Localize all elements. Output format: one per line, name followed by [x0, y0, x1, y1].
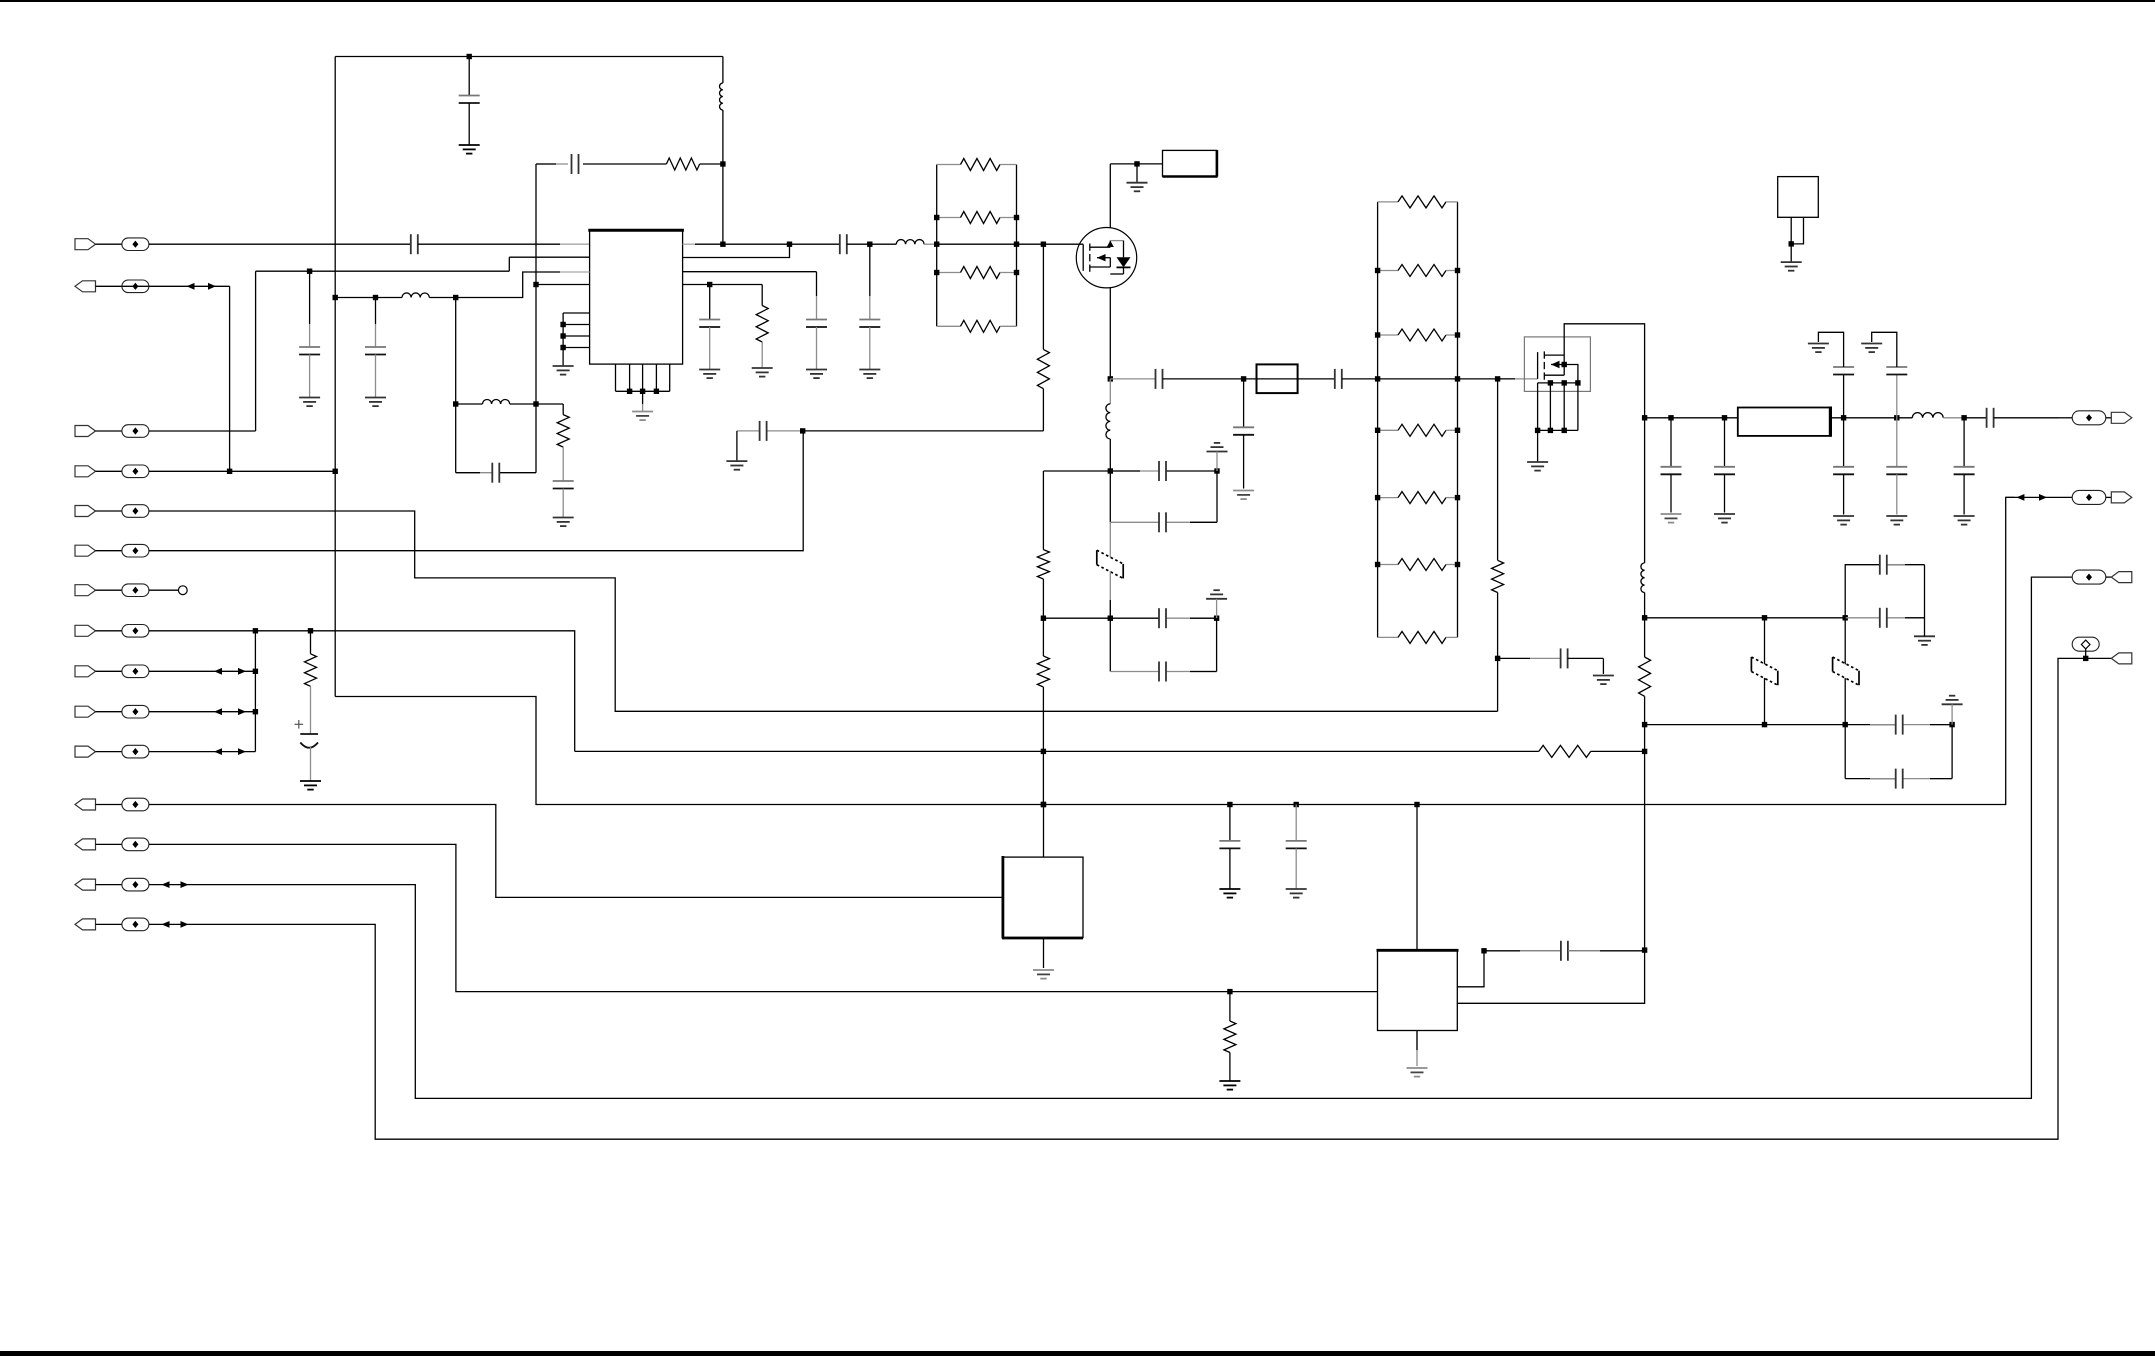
capacitor C6 [365, 298, 386, 398]
junction b2 R [1455, 332, 1460, 337]
ground cp2 up [1206, 590, 1227, 618]
wire pin2B loop [683, 244, 790, 257]
inductor L6 [1641, 418, 1645, 618]
resistor R20 [1378, 559, 1458, 571]
wire net VCC left vertical [334, 57, 336, 697]
wire bank1 row [937, 243, 1017, 245]
resistor R6 [937, 212, 1017, 224]
connector J8 [75, 625, 96, 636]
capacitor C33 [1818, 332, 1854, 418]
connector J9 [75, 666, 96, 677]
wire out4 [2079, 657, 2111, 659]
arrows J11 [214, 748, 246, 755]
junction drain gnd [1134, 161, 1139, 166]
capacitor C16 [1335, 369, 1342, 389]
connector J4 [75, 466, 96, 477]
transistor Q2 [1524, 337, 1590, 392]
junction U3b [1642, 947, 1647, 952]
connector P1 [2111, 412, 2132, 423]
wire J8 [96, 630, 122, 632]
junction pin2B [787, 242, 792, 247]
junction out L1col [720, 242, 725, 247]
junction tank TR [533, 401, 538, 406]
ground U2 [1033, 970, 1054, 979]
connector J13 [75, 839, 96, 850]
capacitor C8 [553, 481, 574, 489]
capacitor C27 [1896, 715, 1903, 735]
oscillator X1 [1778, 177, 1819, 218]
transistor Q1 [1076, 228, 1136, 288]
arrows J9 [214, 668, 246, 675]
inductor L2 [376, 293, 430, 298]
wire bank1 left rail [936, 165, 938, 327]
junction pin3A tank [453, 295, 458, 300]
ground C33 [1808, 344, 1829, 353]
wire U3 right b [1457, 951, 1644, 1004]
wire U1 bottom pins [616, 364, 670, 391]
junction R11 rowC [1041, 802, 1046, 807]
resistor R8 [937, 320, 1017, 332]
wire J10 [96, 711, 122, 713]
junction bpin2 [627, 389, 632, 394]
wire U3 top pin [1416, 805, 1418, 951]
capacitor C10 [859, 244, 880, 369]
capacitor C35 [1954, 418, 1975, 515]
capacitor C36 [1987, 408, 1994, 428]
wire U3 right a [1457, 951, 1484, 987]
ground C12 [699, 370, 720, 379]
capacitor C32 [1886, 418, 1907, 515]
junction b2 R [1455, 376, 1460, 381]
wire src row b [1163, 378, 1244, 380]
resistor R18 [1378, 424, 1458, 436]
junction J10 [253, 709, 258, 714]
capacitor C20 [1159, 662, 1166, 682]
ground C32 [1886, 516, 1907, 525]
ic U2 [1002, 856, 1083, 938]
bottom border bar [0, 1351, 2155, 1356]
arrows P2 [2016, 494, 2047, 501]
wire drain row [1110, 163, 1162, 165]
wire c25 top loop [1845, 565, 1924, 618]
connector P2 [2111, 492, 2132, 503]
resistor R2 [305, 631, 317, 734]
wire J11 east [149, 751, 256, 753]
wire J5 east [149, 511, 1498, 711]
wire cp2 sides [1110, 618, 1216, 671]
wire J12 east [149, 805, 1003, 898]
capacitor C22 [1286, 805, 1307, 890]
ground C22 [1286, 889, 1307, 898]
resistor R14 [1224, 992, 1236, 1081]
wire tank right [535, 404, 537, 473]
attenuator pad A3 [1833, 618, 1859, 725]
arrows J10 [214, 708, 246, 715]
capacitor C21 [1219, 805, 1240, 890]
junction b1 R4 [1014, 270, 1019, 275]
net label N17 [2072, 490, 2106, 504]
ic U3 [1377, 950, 1459, 1030]
ground C34 [1861, 344, 1882, 353]
wire main row to U1 [418, 243, 590, 245]
resistor R12 [1539, 745, 1591, 757]
junction b2 L [1375, 332, 1380, 337]
connector J3 [75, 426, 96, 437]
junction q2s1 [1535, 428, 1540, 433]
wire U2 top pin [1043, 805, 1045, 858]
capacitor C28 [1896, 769, 1903, 789]
no-connect circle J7 [178, 586, 187, 595]
ground C1 [459, 145, 480, 154]
wire Q2 gnd [1537, 430, 1539, 462]
wire cp1 sides [1110, 471, 1217, 522]
ground C29 [1661, 514, 1682, 523]
wire J9 [96, 670, 122, 672]
junction C10 [867, 242, 872, 247]
junction rowC c22 [1294, 802, 1299, 807]
wire J8 east [149, 631, 575, 752]
capacitor C34 [1872, 332, 1908, 418]
net label N3 [122, 425, 149, 438]
wire R3 branch [536, 404, 563, 415]
wire c28 loop [1845, 725, 1952, 779]
junction R9 top [1041, 242, 1046, 247]
junction b2 R [1455, 495, 1460, 500]
resistor R7 [937, 267, 1017, 279]
junction rowC c21 [1227, 802, 1232, 807]
junction b2 L [1375, 428, 1380, 433]
wire R10 top [1043, 470, 1110, 472]
ground C6 [365, 398, 386, 407]
wire row 950 e [1568, 950, 1645, 952]
junction b1 L2 [934, 215, 939, 220]
net label N6 [122, 544, 149, 557]
wire pin3A jog [456, 272, 590, 298]
junction Q2 gate node [1495, 376, 1500, 381]
capacitor C4 [299, 271, 320, 397]
attenuator pad A2 [1751, 618, 1777, 725]
wire Q1 source [1109, 288, 1111, 379]
connector J7 [75, 585, 96, 596]
capacitor C19 [1159, 608, 1166, 628]
junction C24 [1495, 656, 1500, 661]
wire U1 gnd stubs [563, 313, 590, 366]
wire J13 east [149, 844, 1378, 991]
net label N8 [122, 625, 149, 638]
capacitor C30 [1714, 418, 1735, 513]
wire U1 out row [683, 243, 840, 245]
wire row C [335, 497, 2014, 804]
top border bar [0, 0, 2155, 2]
wire out row d [1964, 417, 1987, 419]
wire tank bottom [456, 472, 536, 474]
wire pin2A jog [509, 257, 589, 271]
ground cp1 up [1207, 443, 1228, 471]
wire J7 [96, 589, 122, 591]
inductor L7 [1912, 413, 1943, 418]
junction b2 L [1375, 495, 1380, 500]
net label N10 [122, 705, 149, 718]
wire row B [575, 750, 1539, 752]
junction X1 [1789, 241, 1794, 246]
wire pin3A step [335, 297, 456, 299]
junction top cap [467, 54, 472, 59]
wire gate chain bottom [1497, 658, 1499, 711]
net label N18 [2072, 570, 2106, 584]
capacitor C12 [699, 285, 720, 370]
capacitor C2 [572, 154, 579, 174]
inductor L5 [1106, 379, 1110, 471]
resistor R23 [1639, 618, 1651, 725]
junction q2s2 [1548, 428, 1553, 433]
ground R4 [752, 368, 773, 377]
wire Q2 drain [1564, 324, 1644, 418]
wire U3 gnd [1416, 1031, 1418, 1067]
wire U2 gnd [1043, 938, 1045, 969]
connector P3 [2111, 572, 2132, 583]
ground C24 [1593, 676, 1614, 685]
connector J1 [75, 239, 96, 250]
wire row pin2A [256, 270, 510, 272]
wire pin4B [683, 284, 763, 286]
ground C30 [1714, 514, 1735, 523]
wire out2 b [2106, 496, 2112, 498]
resistor R21 [1378, 631, 1458, 643]
connector J5 [75, 506, 96, 517]
wire row1 cap [1845, 617, 1924, 619]
resistor R19 [1378, 492, 1458, 504]
net label N19 [2072, 637, 2099, 651]
wire C8-gnd [562, 489, 564, 518]
connector J15 [75, 919, 96, 930]
wire U1 gnd stem [642, 391, 644, 411]
wire N19 stub [2085, 649, 2087, 659]
wire c26 right [1924, 565, 1926, 618]
capacitor C26 [1880, 555, 1887, 575]
wire cp1 top [1110, 470, 1217, 472]
wire J15 [96, 923, 122, 925]
resistor R3 [557, 415, 569, 448]
wire X1 pins [1791, 217, 1803, 244]
ground R14 [1219, 1081, 1240, 1090]
junction row2 a [1642, 722, 1647, 727]
net label N15 [122, 918, 149, 931]
wire J8-J11 bus [254, 631, 256, 752]
wire J5 [96, 510, 122, 512]
junction stub2 [560, 322, 565, 327]
wire J14 east [149, 577, 2072, 1098]
junction row1 c [1843, 615, 1848, 620]
capacitor C7 [492, 463, 499, 483]
wire src row d [1342, 378, 1378, 380]
wire L4-bank [924, 243, 937, 245]
wire J6 [96, 550, 122, 552]
capacitor C15 [1233, 379, 1254, 489]
junction bpin4 [654, 389, 659, 394]
junction R14 [1227, 989, 1232, 994]
capacitor C24 [1498, 648, 1604, 674]
net label N2 [122, 280, 149, 293]
ground C8 [553, 518, 574, 527]
junction stub3 [560, 333, 565, 338]
junction pin3A netA [333, 295, 338, 300]
junction b2 R [1455, 428, 1460, 433]
connector P4 [2111, 653, 2132, 664]
wire R3-C8 [562, 447, 564, 481]
connector J10 [75, 706, 96, 717]
junction pin4B [707, 282, 712, 287]
junction L1/RC [720, 161, 725, 166]
ground U3 [1407, 1068, 1428, 1077]
capacitor C31 [1833, 418, 1854, 515]
net label N9 [122, 665, 149, 678]
junction cp2 L [1108, 616, 1113, 621]
wire src row a [1110, 378, 1155, 380]
resistor R17 [1378, 329, 1458, 341]
wire row B east [1591, 750, 1645, 752]
junction b1 L4 [934, 270, 939, 275]
wire row2 cap [1845, 724, 1952, 726]
junction row1 b [1762, 615, 1767, 620]
wire J15 east [149, 658, 2079, 1139]
net label N13 [122, 838, 149, 851]
junction b2 L [1375, 268, 1380, 273]
net label N5 [122, 505, 149, 518]
junction bpin3 [640, 389, 645, 394]
net label N7 [122, 584, 149, 597]
wire L1 to main row [722, 164, 724, 244]
wire J6 east [149, 431, 803, 551]
wire out row b [1831, 417, 1913, 419]
junction J8 bus [253, 628, 258, 633]
filter FL1 [1738, 407, 1831, 437]
resistor R15 [1378, 196, 1458, 208]
junction row2 d [1949, 722, 1954, 727]
wire J11 [96, 751, 122, 753]
junction b2 R [1455, 562, 1460, 567]
junction b2 R [1455, 268, 1460, 273]
arrows J15 [162, 921, 189, 928]
junction stub4 [560, 345, 565, 350]
junction o5 [1961, 415, 1966, 420]
wire out row3 [870, 243, 897, 245]
junction o3 [1841, 415, 1846, 420]
capacitor C18 [1159, 512, 1166, 532]
junction pin4 [533, 282, 538, 287]
junction pin3A capcol [373, 295, 378, 300]
junction o1 [1668, 415, 1673, 420]
junction cp1 L [1108, 468, 1113, 473]
junction b1 L3 [934, 242, 939, 247]
wire J9 east [149, 670, 256, 672]
junction b1 R2 [1014, 215, 1019, 220]
junction C15 col [1241, 376, 1246, 381]
wire out row2 [847, 243, 870, 245]
capacitor C23 [1561, 941, 1568, 961]
capacitor C9 [840, 234, 847, 254]
wire out3 [2072, 576, 2112, 578]
wire bank1 right rail [1016, 165, 1018, 327]
junction J8 R2 [308, 628, 313, 633]
wire bank2 left rail [1377, 202, 1379, 638]
connector J6 [75, 545, 96, 556]
wire Q1 drain [1109, 164, 1111, 228]
arrows J2 [187, 283, 217, 290]
junction R11 rowB [1041, 749, 1046, 754]
wire J3 [96, 430, 122, 432]
resistor R22 [1492, 379, 1504, 659]
ground C15 [1233, 491, 1254, 500]
wire J2 down [229, 286, 231, 471]
wire Q2 source pins [1538, 391, 1578, 430]
ground C5 [300, 781, 321, 790]
wire J13 [96, 843, 122, 845]
ground Q1 drain [1127, 183, 1148, 192]
junction o4 [1894, 415, 1899, 420]
junction o2 [1722, 415, 1727, 420]
wire J7 stub [149, 589, 179, 591]
junction J9 [253, 669, 258, 674]
capacitor C14 [1156, 369, 1163, 389]
capacitor C17 [1159, 461, 1166, 481]
wire J2 [96, 285, 230, 287]
wire cp2 top [1110, 617, 1216, 619]
wire drain gnd stem [1136, 164, 1138, 183]
junction b2 L [1375, 376, 1380, 381]
resistor R11 [1037, 618, 1049, 804]
capacitor C25 [1880, 608, 1887, 628]
wire pin3B [683, 271, 817, 273]
wire out row e [1994, 417, 2059, 419]
wire J14 [96, 884, 122, 886]
junction R10/R11 [1041, 616, 1046, 621]
inductor L3 [456, 399, 536, 404]
net label N14 [122, 878, 149, 891]
wire out row f [2058, 417, 2111, 419]
wire chain 1644 down [1644, 725, 1646, 951]
capacitor C29 [1661, 418, 1682, 513]
connector J2 [75, 281, 96, 292]
junction row2 c [1843, 722, 1848, 727]
junction q2s3 [1562, 428, 1567, 433]
junction J4 netA [333, 469, 338, 474]
ground U1 left [553, 366, 574, 375]
ground C35 [1954, 516, 1975, 525]
capacitor C5 polarized [295, 720, 319, 781]
resistor R5 [937, 159, 1017, 171]
junction rowB end [1642, 749, 1647, 754]
wire row 950 [1484, 950, 1561, 952]
junction rowC u3 [1414, 802, 1419, 807]
resistor R16 [1378, 265, 1458, 277]
junction row1 a [1642, 615, 1647, 620]
capacitor C3 [411, 234, 418, 254]
resistor R9 [1037, 244, 1049, 431]
capacitor C1 [459, 57, 480, 146]
net label N12 [122, 798, 149, 811]
wire X1 gnd [1790, 244, 1792, 262]
wire out2 [2006, 496, 2073, 498]
wire C13 gnd stem [736, 431, 738, 461]
junction row2 b [1762, 722, 1767, 727]
connector J14 [75, 879, 96, 890]
junction cap C4 [307, 269, 312, 274]
connector J11 [75, 746, 96, 757]
ground row1 [1914, 618, 1935, 645]
inductor L4 [896, 240, 924, 245]
ground C31 [1833, 516, 1854, 525]
inductor L1 [720, 57, 723, 165]
